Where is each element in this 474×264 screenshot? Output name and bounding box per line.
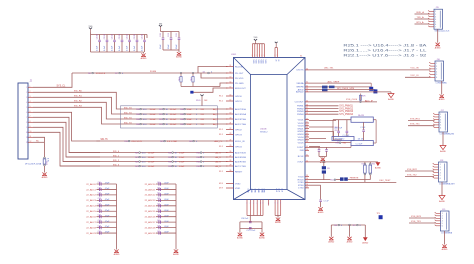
svg-text:31: 31	[306, 82, 308, 84]
wire loop verticals	[239, 222, 241, 233]
IC U101 inner core	[251, 75, 288, 190]
svg-text:VDD: VDD	[255, 60, 257, 65]
svg-text:4: 4	[268, 203, 269, 205]
svg-text:C100: C100	[97, 33, 99, 39]
svg-text:2: 2	[257, 203, 258, 205]
IC U101 corner diagonals	[234, 58, 251, 75]
svg-text:7: 7	[30, 116, 31, 118]
svg-text:C34: C34	[98, 204, 101, 206]
pin bottom GND	[256, 200, 258, 216]
svg-text:AGND: AGND	[440, 150, 446, 153]
svg-text:22_ADC5: 22_ADC5	[86, 210, 96, 213]
svg-text:45: 45	[306, 133, 308, 135]
svg-text:GND: GND	[263, 189, 265, 194]
svg-text:2: 2	[436, 66, 437, 68]
svg-text:A0_R: A0_R	[216, 156, 222, 159]
svg-text:GPIO2: GPIO2	[235, 129, 242, 131]
pin 6 J17	[435, 127, 440, 129]
svg-text:C37: C37	[98, 220, 101, 222]
filter component FL1	[332, 137, 354, 141]
svg-text:22_ADC7: 22_ADC7	[86, 221, 96, 224]
pin top VDD	[254, 44, 256, 58]
svg-text:GND4: GND4	[297, 140, 304, 142]
svg-text:931_TX: 931_TX	[124, 107, 132, 109]
svg-text:VDD: VDD	[262, 60, 264, 65]
svg-text:C31: C31	[98, 187, 101, 189]
svg-text:48: 48	[306, 141, 308, 143]
svg-text:11.0uF: 11.0uF	[170, 119, 177, 121]
svg-text:PWM1: PWM1	[297, 106, 304, 108]
resistor R302 vertical	[369, 162, 371, 163]
svg-text:AGND: AGND	[42, 176, 48, 179]
svg-text:TXD0: TXD0	[298, 176, 304, 178]
pin left MCLK_IN	[226, 140, 234, 142]
svg-text:3V3: 3V3	[159, 24, 162, 26]
power flag (top pins 2)	[275, 43, 277, 48]
svg-text:C106: C106	[142, 33, 144, 39]
svg-text:931_TX: 931_TX	[124, 122, 132, 124]
junction node XI	[180, 72, 181, 73]
svg-text:9: 9	[30, 126, 31, 128]
svg-text:C36: C36	[98, 215, 101, 217]
ground AGND column 2	[174, 250, 178, 253]
svg-text:SYS_TX3: SYS_TX3	[411, 221, 421, 223]
svg-text:37: 37	[306, 107, 308, 109]
wire J19 ground stub	[444, 231, 446, 245]
pin left AD7/CTSB	[226, 165, 234, 167]
pin bottom GND	[260, 200, 262, 216]
svg-text:VDD1: VDD1	[298, 120, 305, 122]
svg-text:9: 9	[26, 127, 27, 129]
wire bottom net	[331, 224, 365, 226]
ground AGND below C60	[318, 207, 322, 210]
capacitor C53 1uF	[363, 122, 365, 129]
svg-text:3: 3	[280, 203, 281, 205]
svg-text:931_TX: 931_TX	[124, 112, 132, 114]
svg-text:5A 1W: 5A 1W	[358, 114, 364, 117]
svg-text:R32: R32	[372, 164, 375, 166]
svg-text:GND: GND	[257, 189, 259, 194]
svg-text:39: 39	[306, 113, 308, 115]
svg-text:BCLK: BCLK	[298, 156, 304, 158]
svg-text:RTS0: RTS0	[298, 185, 304, 187]
svg-text:AD0/TXDA: AD0/TXDA	[235, 108, 246, 111]
svg-text:R76: R76	[362, 96, 365, 98]
svg-text:931_1: 931_1	[113, 155, 120, 157]
svg-text:7: 7	[26, 117, 27, 119]
resistor R76 vertical small	[360, 94, 362, 102]
ground AGND drop2	[347, 237, 351, 240]
svg-text:C42: C42	[157, 193, 160, 195]
svg-text:C32: C32	[98, 193, 101, 195]
svg-text:47pF: 47pF	[164, 226, 169, 228]
pin left AD6/RTSB	[226, 161, 234, 163]
svg-text:ADC_VREF: ADC_VREF	[328, 80, 340, 83]
svg-text:VREFB: VREFB	[296, 87, 304, 89]
svg-text:MCLKOUT: MCLKOUT	[235, 88, 246, 90]
svg-text:5: 5	[277, 55, 278, 57]
svg-text:9: 9	[252, 55, 253, 57]
pin 4 J19	[436, 220, 441, 222]
svg-text:PLLGND: PLLGND	[235, 83, 244, 85]
pin 6 J19	[436, 225, 441, 227]
svg-text:22_ADC13: 22_ADC13	[145, 199, 156, 202]
wire ladder top	[333, 119, 351, 121]
svg-text:47pF: 47pF	[105, 183, 110, 185]
svg-text:0.1uF: 0.1uF	[104, 45, 106, 51]
svg-text:AD2/RTSA: AD2/RTSA	[235, 118, 246, 121]
svg-text:5: 5	[26, 107, 27, 109]
pin right GND4	[305, 139, 309, 141]
capacitor C55 under wire	[326, 147, 328, 149]
svg-text:47pF: 47pF	[105, 199, 110, 201]
pin left AD0/TXDA	[226, 108, 234, 110]
pin right VDD3	[305, 125, 309, 127]
svg-text:C105: C105	[134, 33, 136, 39]
svg-text:VDD: VDD	[252, 60, 254, 65]
svg-text:21: 21	[230, 123, 232, 125]
svg-text:11.0uF: 11.0uF	[148, 166, 155, 168]
svg-text:34: 34	[306, 91, 308, 93]
power flag VDD (cap bank 1)	[90, 29, 92, 33]
svg-text:VDD4: VDD4	[298, 137, 305, 139]
svg-text:10uF: 10uF	[176, 44, 178, 49]
svg-text:GND: GND	[254, 189, 256, 194]
capacitor C97 0.1uF	[249, 226, 252, 228]
wire from chip to ladder L2	[309, 142, 351, 144]
wire J15 ground stub	[437, 29, 439, 43]
svg-text:XR16L2: XR16L2	[260, 132, 268, 134]
wire top rail cap bank 2	[161, 31, 180, 33]
wire bottom rail cap bank 2	[163, 49, 179, 51]
svg-text:SYS_RX3: SYS_RX3	[411, 216, 422, 218]
svg-text:PLLVDD: PLLVDD	[235, 78, 244, 80]
svg-text:931_2: 931_2	[113, 160, 120, 162]
pin right GND2	[305, 130, 309, 132]
svg-text:38: 38	[306, 110, 308, 112]
wire J2 pin7 to lower row	[33, 117, 100, 152]
svg-text:3: 3	[30, 96, 31, 98]
ground AGND J19	[442, 245, 446, 248]
svg-text:GPIO3: GPIO3	[235, 134, 242, 136]
pin right PWM2	[305, 108, 309, 110]
svg-text:AGND: AGND	[318, 211, 324, 214]
svg-text:52: 52	[306, 161, 308, 163]
svg-text:47pF: 47pF	[164, 210, 169, 212]
svg-text:SYS_PWM13: SYS_PWM13	[339, 111, 354, 113]
svg-text:15: 15	[230, 87, 232, 89]
svg-text:9: 9	[264, 55, 265, 57]
ground AGND J18	[439, 196, 445, 200]
svg-text:AGND: AGND	[347, 240, 353, 243]
svg-text:AGND: AGND	[275, 221, 281, 224]
pin bottom GND	[246, 200, 248, 216]
svg-text:22_ADC0: 22_ADC0	[86, 183, 96, 186]
svg-text:PWM2: PWM2	[297, 108, 304, 110]
svg-text:1.0uF: 1.0uF	[187, 119, 193, 121]
svg-text:931_R1: 931_R1	[74, 95, 82, 97]
wire SYS_TX3	[409, 222, 436, 224]
pin 6 J2	[28, 111, 33, 113]
svg-text:11.0uF: 11.0uF	[150, 109, 157, 111]
wire bottom of ladder	[309, 146, 351, 148]
svg-text:MCLK_IN: MCLK_IN	[235, 141, 245, 143]
svg-text:SYS_PWM12: SYS_PWM12	[339, 108, 354, 110]
pin right PWM1	[305, 105, 309, 107]
ferrite bead FB1	[322, 86, 328, 89]
pin left PLLGND	[226, 82, 234, 84]
svg-text:VCC_IN: VCC_IN	[410, 68, 418, 70]
junction node XO	[192, 72, 193, 73]
pin 1 J2	[28, 86, 33, 88]
resistor R41 vertical	[180, 73, 182, 77]
svg-text:VDD5: VDD5	[298, 142, 305, 144]
pin top XTAL	[276, 48, 278, 58]
wire band 2	[309, 126, 334, 128]
capacitor C106	[136, 35, 138, 40]
svg-text:1.0uF: 1.0uF	[179, 166, 185, 168]
svg-text:2A 2.2uF: 2A 2.2uF	[335, 126, 343, 129]
wire J2 pin11 to pulldown	[33, 137, 45, 157]
ground AGND under caps	[321, 158, 325, 161]
pin left PLLOUT	[226, 72, 234, 74]
ground AGND below chip avss	[276, 218, 280, 221]
wire	[90, 33, 92, 53]
pin right GND1	[305, 128, 309, 130]
pin top XTAL	[274, 48, 276, 58]
wire bottom rail 1	[247, 215, 263, 217]
svg-text:ADC_IP: ADC_IP	[365, 100, 373, 103]
svg-text:C 1uF: C 1uF	[360, 127, 366, 129]
svg-text:13: 13	[230, 77, 232, 79]
svg-text:OSC_TEST: OSC_TEST	[379, 180, 391, 182]
svg-text:1.0uF: 1.0uF	[187, 124, 193, 126]
svg-text:CON6MMRA-SM: CON6MMRA-SM	[440, 133, 455, 136]
svg-text:11: 11	[30, 136, 32, 138]
wire SYS_RX1	[408, 119, 435, 121]
svg-text:1.0uF: 1.0uF	[179, 157, 185, 159]
pin right CLKOUT	[305, 101, 309, 103]
capacitor C113	[178, 32, 180, 38]
svg-text:C41: C41	[157, 187, 160, 189]
svg-text:SYS_CL: SYS_CL	[57, 86, 67, 88]
wire J17 ground stub	[442, 132, 444, 146]
svg-text:4: 4	[435, 19, 436, 21]
svg-text:16: 16	[230, 95, 232, 97]
svg-text:3: 3	[26, 97, 27, 99]
test point TP3	[379, 215, 383, 219]
pin right AVDD	[305, 89, 309, 91]
pin right VDD4	[305, 136, 309, 138]
svg-text:C44: C44	[157, 204, 160, 206]
pin right VREFA	[305, 82, 309, 84]
pin 8 J2	[28, 121, 33, 123]
pin bottom AVSS	[274, 200, 276, 216]
pin left GPIO3	[226, 134, 234, 136]
svg-text:VDD: VDD	[259, 60, 261, 65]
svg-text:12: 12	[230, 72, 232, 74]
svg-text:DF11-20DP-2DSA: DF11-20DP-2DSA	[25, 163, 42, 166]
wire ladder right vertical	[375, 120, 377, 143]
pin 6 J16	[431, 76, 436, 78]
svg-text:RCLKIN: RCLKIN	[235, 66, 243, 68]
wire J2 pin3 to row 2	[33, 97, 121, 114]
wire lower row 4	[60, 165, 228, 167]
svg-text:1/4 2W: 1/4 2W	[358, 139, 364, 141]
svg-text:AGND: AGND	[388, 98, 394, 101]
capacitor C112	[170, 32, 172, 38]
wire SYS_RX3	[409, 217, 436, 219]
wire	[160, 30, 162, 32]
svg-text:PWM3: PWM3	[297, 111, 304, 113]
svg-text:12: 12	[30, 141, 32, 143]
svg-text:11: 11	[230, 65, 232, 67]
svg-text:5VD: 5VD	[254, 37, 258, 39]
svg-text:30: 30	[230, 170, 232, 172]
svg-text:C101: C101	[104, 33, 106, 39]
ground DGND arrow drop3	[363, 237, 368, 241]
wire J2 pin10 to lower row	[33, 132, 100, 166]
wire SYS_CLK0	[309, 101, 377, 103]
svg-text:22: 22	[230, 128, 232, 130]
svg-text:5: 5	[30, 106, 31, 108]
svg-text:RESET: RESET	[235, 171, 243, 173]
svg-text:47pF: 47pF	[105, 226, 110, 228]
svg-text:AGND: AGND	[173, 253, 179, 256]
svg-text:7: 7	[435, 27, 436, 29]
svg-text:11.0uF: 11.0uF	[170, 109, 177, 111]
svg-text:5: 5	[440, 175, 441, 177]
pin 5 J18	[434, 174, 439, 176]
pin 3 J15	[430, 16, 435, 18]
pin left AD2/RTSA	[226, 118, 234, 120]
svg-text:A0_P: A0_P	[213, 123, 219, 126]
svg-text:22_ADC15: 22_ADC15	[145, 210, 156, 213]
pin 7 J15	[430, 26, 435, 28]
svg-text:0.1uF: 0.1uF	[134, 45, 136, 51]
wire SYS_PWM4	[309, 113, 339, 115]
svg-text:22_ADC18: 22_ADC18	[145, 226, 156, 229]
wire SYS_CLK pin1	[33, 73, 72, 87]
svg-text:LED_TX1: LED_TX1	[324, 68, 334, 70]
svg-text:22_ADC9: 22_ADC9	[86, 232, 96, 235]
wire band 4	[309, 138, 326, 140]
svg-text:SYS_RX1: SYS_RX1	[410, 118, 421, 120]
wire row 2 through box	[121, 113, 228, 115]
svg-text:3: 3	[442, 218, 443, 220]
pin left AD3/CTSA	[226, 123, 234, 125]
svg-text:54: 54	[306, 178, 308, 180]
svg-text:22_ADC16: 22_ADC16	[145, 216, 156, 219]
pin 11 J2	[28, 136, 33, 138]
svg-text:3: 3	[435, 16, 436, 18]
resistor R301 vertical	[364, 162, 366, 163]
svg-text:14: 14	[230, 82, 232, 84]
svg-text:A0_R: A0_R	[216, 160, 222, 163]
wire OSC_TEST	[309, 181, 396, 183]
pin 1 J17	[435, 113, 440, 115]
svg-text:57: 57	[306, 187, 308, 189]
svg-text:47: 47	[306, 138, 308, 140]
ferrite bead FB4	[340, 177, 344, 180]
pin bottom AVSS	[280, 200, 282, 216]
svg-text:33: 33	[306, 88, 308, 90]
capacitor C102	[106, 35, 108, 40]
svg-text:2: 2	[440, 167, 441, 169]
svg-text:26: 26	[230, 151, 232, 153]
svg-text:3.3 1.76M: 3.3 1.76M	[167, 141, 177, 143]
pin left MCLKOUT	[226, 87, 234, 89]
svg-text:11: 11	[26, 137, 28, 139]
svg-text:47pF: 47pF	[164, 188, 169, 190]
wire top rail cap bank 1	[91, 34, 148, 36]
capacitor C51	[338, 120, 340, 131]
svg-text:C45: C45	[157, 209, 160, 211]
pin right DIN	[305, 149, 309, 151]
svg-text:LEDTX: LEDTX	[296, 70, 304, 72]
capacitor C101	[99, 35, 101, 40]
pin 1 J19	[436, 212, 441, 214]
svg-text:AGND: AGND	[439, 200, 445, 203]
svg-text:25: 25	[230, 145, 232, 147]
svg-text:4: 4	[442, 221, 443, 223]
svg-text:AD6/RTSB: AD6/RTSB	[235, 160, 246, 163]
svg-text:0.1uF: 0.1uF	[119, 45, 121, 51]
svg-text:22_ADC1: 22_ADC1	[86, 188, 96, 191]
svg-text:41: 41	[306, 122, 308, 124]
pin 7 J2	[28, 116, 33, 118]
svg-text:11.0uF: 11.0uF	[170, 124, 177, 126]
svg-text:22_ADC3: 22_ADC3	[86, 199, 96, 202]
svg-text:32: 32	[306, 86, 308, 88]
svg-text:8: 8	[26, 122, 27, 124]
svg-text:R31: R31	[362, 164, 365, 166]
wire SYS_PWM3	[309, 110, 339, 112]
svg-text:VREFA: VREFA	[296, 82, 304, 85]
pin 2 J17	[435, 116, 440, 118]
pin right TXD0	[305, 176, 309, 178]
svg-text:A0_R: A0_R	[216, 165, 222, 168]
pin 9 J2	[28, 126, 33, 128]
svg-text:93.6M: 93.6M	[150, 71, 156, 73]
svg-text:GPIO0: GPIO0	[235, 96, 242, 98]
pin top VDD	[256, 44, 258, 58]
svg-text:11.0uF: 11.0uF	[170, 114, 177, 116]
svg-text:5VD: 5VD	[89, 26, 93, 28]
ground AGND (cap bank 1)	[143, 52, 145, 54]
svg-text:55: 55	[306, 181, 308, 183]
wire row 3 through box	[121, 118, 228, 120]
svg-text:C46: C46	[157, 215, 160, 217]
svg-text:GND: GND	[247, 189, 249, 194]
svg-text:C 2.2uF: C 2.2uF	[356, 143, 364, 145]
pin right DTR0	[305, 181, 309, 183]
svg-text:5: 5	[440, 125, 441, 127]
svg-text:931_R3: 931_R3	[74, 105, 82, 107]
svg-text:1.0uF: 1.0uF	[187, 109, 193, 111]
svg-text:AGND2: AGND2	[296, 91, 304, 94]
pin left RESET	[226, 171, 234, 173]
wire SYS_TX1	[408, 125, 435, 127]
wire drop 3	[364, 225, 366, 237]
wire RTS_A	[415, 23, 430, 25]
svg-text:931_3: 931_3	[113, 164, 120, 166]
svg-text:22_ADC10: 22_ADC10	[145, 183, 156, 186]
svg-text:AGND: AGND	[176, 56, 182, 59]
svg-text:2: 2	[30, 91, 31, 93]
capacitor C98 1uF	[249, 216, 251, 221]
svg-text:56: 56	[306, 184, 308, 186]
